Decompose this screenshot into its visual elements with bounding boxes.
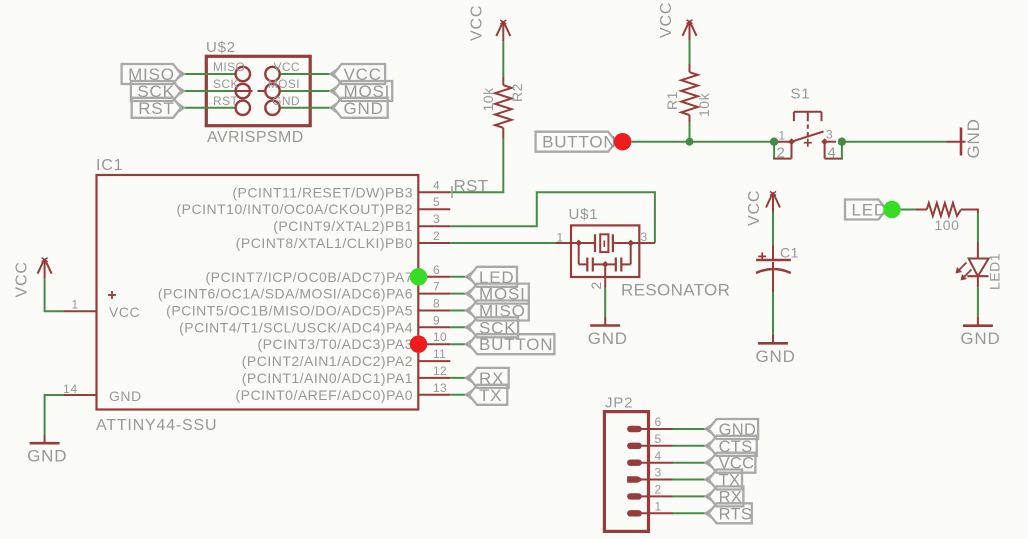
- wire LED1 to ground: [977, 276, 979, 287]
- svg-text:JP2: JP2: [605, 395, 633, 412]
- connector JP2 box: [604, 412, 648, 532]
- svg-text:3: 3: [655, 466, 662, 480]
- svg-text:VCC: VCC: [746, 190, 763, 226]
- JP2 pin 2 stub: [640, 495, 673, 497]
- pin pad U$2 GND: [265, 101, 279, 115]
- wire pin to flag SCK: [450, 326, 469, 328]
- flag MOSI (right of U$2): [334, 81, 393, 101]
- JP2 pin 4 pad: [627, 460, 642, 466]
- plus mark at IC VCC: [108, 294, 116, 296]
- svg-text:2: 2: [777, 145, 786, 162]
- junction at S1 pin 3: [838, 138, 846, 146]
- junction at S1 pin 1: [770, 138, 778, 146]
- JP2 pin 5 stub: [640, 445, 673, 447]
- svg-text:2: 2: [433, 229, 440, 243]
- svg-text:TX: TX: [479, 386, 502, 405]
- flag SCK (left of U$2): [131, 81, 181, 101]
- resistor R3 100 (horizontal): [916, 209, 927, 211]
- svg-text:VCC: VCC: [469, 5, 486, 41]
- ground GND (under resonator): [590, 324, 620, 327]
- pin line U$2 MOSI: [258, 90, 266, 92]
- svg-text:1: 1: [779, 129, 786, 143]
- svg-text:1: 1: [557, 231, 564, 245]
- JP2 pin 2 pad: [627, 493, 642, 499]
- flag SCK (IC right): [469, 317, 518, 337]
- svg-text:GND: GND: [344, 99, 384, 118]
- svg-text:4: 4: [828, 145, 837, 162]
- svg-text:1: 1: [72, 298, 79, 312]
- junction under R1: [686, 138, 694, 146]
- flag RTS (JP2): [709, 503, 752, 523]
- flag MOSI (IC right): [469, 284, 529, 304]
- svg-text:GND: GND: [27, 447, 67, 466]
- switch S1 actuator: [794, 111, 822, 113]
- wire S1 to ground (right): [842, 141, 946, 143]
- wire IC pin 2 XTAL1 to resonator pin 1: [450, 242, 555, 244]
- svg-text:(PCINT4/T1/SCL/USCK/ADC4)PA4: (PCINT4/T1/SCL/USCK/ADC4)PA4: [179, 319, 413, 335]
- wire VCC to pin 1: [45, 279, 64, 312]
- svg-text:RST: RST: [213, 94, 238, 108]
- pin pad U$2 SCK: [236, 84, 250, 98]
- flag LED (IC right): [469, 267, 517, 287]
- JP2 pin 3 stub: [640, 479, 673, 481]
- resistor R2 10k: [502, 77, 504, 85]
- wire JP2 pin 6 to flag GND: [673, 428, 709, 430]
- power VCC (above C1): [766, 193, 773, 208]
- connector U$2 AVRISPSMD box: [206, 56, 310, 125]
- svg-text:VCC: VCC: [109, 304, 140, 320]
- flag GND (JP2): [709, 419, 759, 439]
- pin 2 PB0 stub: [418, 242, 450, 244]
- svg-text:BUTTON: BUTTON: [479, 335, 553, 354]
- wire net GND (right out of U$2): [280, 107, 334, 109]
- flag TX (JP2): [709, 470, 742, 490]
- svg-text:LED1: LED1: [987, 253, 1003, 290]
- svg-text:(PCINT6/OC1A/SDA/MOSI/ADC6)PA6: (PCINT6/OC1A/SDA/MOSI/ADC6)PA6: [158, 286, 413, 302]
- svg-text:S1: S1: [791, 86, 811, 103]
- svg-text:GND: GND: [964, 118, 983, 158]
- resonator pin 1: [555, 242, 578, 244]
- wire resistor to LED1: [977, 209, 979, 214]
- wire pin to flag BUTTON: [450, 343, 469, 345]
- svg-text:AVRISPSMD: AVRISPSMD: [207, 129, 304, 146]
- wire IC pin 3 XTAL2 to resonator pin 3 (over the top): [450, 192, 655, 243]
- flag MISO (left of U$2): [122, 64, 181, 84]
- pin 4 PB3 stub: [418, 191, 450, 193]
- wire R1 to button net: [689, 122, 691, 142]
- svg-text:7: 7: [433, 280, 440, 294]
- svg-text:BUTTON: BUTTON: [542, 133, 616, 152]
- flag RX (JP2): [709, 486, 744, 506]
- wire pin to flag MISO: [450, 310, 469, 312]
- net highlight dot (red) at BUTTON flag: [614, 133, 632, 151]
- pin pad U$2 VCC: [265, 67, 279, 81]
- pin 9 PA4 stub: [418, 326, 450, 328]
- svg-text:8: 8: [433, 297, 440, 311]
- wire JP2 pin 4 to flag VCC: [673, 462, 709, 464]
- svg-text:GND: GND: [756, 347, 796, 366]
- svg-text:(PCINT9/XTAL2)PB1: (PCINT9/XTAL2)PB1: [273, 218, 413, 234]
- pin 10 PA3 stub: [418, 343, 450, 345]
- flag RST (left of U$2): [132, 98, 181, 118]
- wire LED flag to R3: [901, 209, 916, 211]
- JP2 pin 1 stub: [640, 512, 673, 514]
- capacitor C1 (polarized): [772, 245, 774, 260]
- switch S1 pin 2 loop: [773, 142, 775, 159]
- svg-text:10k: 10k: [480, 87, 496, 112]
- flag GND (right of U$2): [334, 98, 388, 118]
- svg-text:GND: GND: [960, 329, 1000, 348]
- wire JP2 pin 1 to flag RTS: [673, 512, 709, 514]
- wire pin to flag MOSI: [450, 293, 469, 295]
- svg-text:VCC: VCC: [273, 60, 300, 74]
- pin 1 VCC stub: [63, 310, 96, 312]
- pin 8 PA5 stub: [418, 310, 450, 312]
- flag BUTTON (IC right): [469, 334, 554, 354]
- svg-text:5: 5: [655, 432, 662, 446]
- svg-text:(PCINT11/RESET/DW)PB3: (PCINT11/RESET/DW)PB3: [232, 184, 413, 200]
- wire JP2 pin 5 to flag CTS: [673, 445, 709, 447]
- ground GND (left): [44, 435, 46, 443]
- svg-text:GND: GND: [109, 388, 142, 404]
- wire pin to flag LED: [450, 276, 469, 278]
- svg-text:6: 6: [655, 415, 662, 429]
- wire C1 to ground: [772, 262, 774, 292]
- ground GND (under LED1): [963, 324, 993, 327]
- resonator pin 2 to ground: [604, 264, 606, 287]
- wire pin 14 to GND: [45, 395, 64, 435]
- svg-text:R2: R2: [509, 83, 525, 102]
- flag CTS (JP2): [709, 436, 757, 456]
- flag VCC (JP2): [709, 453, 756, 473]
- svg-text:2: 2: [655, 483, 662, 497]
- net label RST: [451, 186, 453, 198]
- svg-text:(PCINT7/ICP/OC0B/ADC7)PA7: (PCINT7/ICP/OC0B/ADC7)PA7: [205, 269, 413, 285]
- svg-text:10k: 10k: [696, 92, 712, 117]
- flag RX (IC right): [469, 368, 509, 388]
- wire JP2 pin 3 to flag TX: [673, 479, 709, 481]
- JP2 pin 3 pad: [627, 476, 644, 482]
- resonator U$1 body: [571, 225, 639, 277]
- pin pad U$2 RST: [236, 101, 250, 115]
- svg-text:1: 1: [655, 500, 662, 514]
- net highlight dot (red) on pin 10 BUTTON: [410, 335, 428, 353]
- svg-text:RESONATOR: RESONATOR: [621, 281, 730, 300]
- svg-text:100: 100: [935, 217, 960, 233]
- JP2 pin 6 stub: [640, 428, 673, 430]
- svg-text:GND: GND: [588, 329, 628, 348]
- switch S1 pin 4 loop: [824, 142, 826, 158]
- svg-text:(PCINT2/AIN1/ADC2)PA2: (PCINT2/AIN1/ADC2)PA2: [242, 353, 413, 369]
- flag MISO (IC right): [469, 301, 529, 321]
- pin pad U$2 MISO: [236, 67, 250, 81]
- svg-text:MOSI: MOSI: [268, 77, 300, 91]
- svg-text:MISO: MISO: [213, 60, 245, 74]
- svg-text:SCK: SCK: [213, 77, 239, 91]
- plus mark at C1: [758, 255, 766, 257]
- wire R2 to IC pin 4 (RST net): [450, 139, 503, 192]
- resistor R1 10k: [689, 64, 691, 72]
- wire net MISO (left into U$2): [181, 73, 236, 75]
- svg-text:14: 14: [63, 382, 78, 396]
- svg-text:3: 3: [641, 230, 648, 244]
- flag LED (net source): [845, 200, 887, 220]
- wire VCC to R2: [502, 41, 504, 77]
- JP2 pin 4 stub: [640, 462, 673, 464]
- wire net VCC (right out of U$2): [280, 73, 334, 75]
- pin pad U$2 MOSI: [265, 84, 279, 98]
- svg-text:U$1: U$1: [569, 206, 599, 223]
- svg-text:(PCINT5/OC1B/MISO/DO/ADC5)PA5: (PCINT5/OC1B/MISO/DO/ADC5)PA5: [166, 303, 413, 319]
- svg-text:U$2: U$2: [206, 39, 236, 56]
- wire JP2 pin 2 to flag RX: [673, 495, 709, 497]
- ground GND (right, rotated): [946, 141, 965, 143]
- wire pin to flag TX: [450, 394, 469, 396]
- svg-text:(PCINT1/AIN0/ADC1)PA1: (PCINT1/AIN0/ADC1)PA1: [242, 370, 413, 386]
- switch S1 pin 3: [825, 141, 836, 143]
- LED LED1 diode symbol: [969, 259, 989, 277]
- switch S1 lever: [792, 132, 824, 142]
- svg-text:4: 4: [433, 178, 440, 192]
- svg-text:2: 2: [588, 281, 604, 290]
- svg-text:(PCINT10/INT0/OC0A/CKOUT)PB2: (PCINT10/INT0/OC0A/CKOUT)PB2: [177, 201, 414, 217]
- net highlight dot (green) on pin 6 LED: [410, 268, 428, 286]
- svg-text:(PCINT3/T0/ADC3)PA3: (PCINT3/T0/ADC3)PA3: [258, 336, 414, 352]
- svg-text:VCC: VCC: [658, 2, 675, 38]
- svg-text:C1: C1: [780, 245, 799, 261]
- resonator pin 3: [631, 242, 655, 244]
- wire BUTTON to S1: [631, 141, 774, 143]
- switch S1 pin 1: [775, 141, 791, 143]
- pin 5 PB2 stub: [418, 208, 450, 210]
- wire VCC to R1: [689, 41, 691, 64]
- wire pin to flag RX: [450, 377, 469, 379]
- flag TX (IC right): [469, 385, 507, 405]
- svg-text:6: 6: [433, 263, 440, 277]
- power VCC (above R2): [496, 21, 503, 36]
- svg-text:GND: GND: [272, 94, 300, 108]
- pin 11 PA2 stub: [418, 360, 450, 362]
- wire net RST (left into U$2): [181, 107, 236, 109]
- svg-text:3: 3: [433, 212, 440, 226]
- flag VCC (right of U$2): [334, 64, 386, 84]
- IC U1 ATTINY44-SSU body IC1: [97, 175, 419, 410]
- switch S1 cross mark: [804, 142, 812, 144]
- LED1 light arrows: [958, 263, 967, 272]
- svg-text:10: 10: [433, 330, 447, 344]
- svg-text:4: 4: [655, 449, 662, 463]
- pin line U$2 SCK: [236, 90, 253, 92]
- internal capacitors of U$1: [578, 243, 580, 264]
- svg-text:VCC: VCC: [14, 261, 31, 297]
- JP2 pin 6 pad: [627, 426, 642, 432]
- net highlight dot (green) at LED flag: [883, 201, 901, 219]
- power VCC (above R1): [683, 21, 690, 36]
- flag BUTTON (net source): [536, 132, 617, 152]
- wire VCC to C1: [772, 213, 774, 246]
- svg-text:12: 12: [433, 364, 447, 378]
- svg-text:ATTINY44-SSU: ATTINY44-SSU: [96, 417, 217, 434]
- svg-text:(PCINT8/XTAL1/CLKI)PB0: (PCINT8/XTAL1/CLKI)PB0: [236, 235, 413, 251]
- pin 7 PA6 stub: [418, 293, 450, 295]
- wire net MOSI (right out of U$2): [280, 90, 334, 92]
- JP2 pin 1 pad: [627, 510, 642, 516]
- svg-text:RST: RST: [138, 99, 174, 118]
- ground GND (under C1): [758, 342, 788, 345]
- svg-text:(PCINT0/AREF/ADC0)PA0: (PCINT0/AREF/ADC0)PA0: [236, 387, 414, 403]
- wire net SCK (left into U$2): [181, 90, 236, 92]
- svg-text:IC1: IC1: [96, 157, 123, 174]
- JP2 pin 5 pad: [627, 443, 642, 449]
- svg-text:RST: RST: [454, 177, 489, 196]
- svg-text:9: 9: [433, 313, 440, 327]
- svg-text:5: 5: [433, 195, 440, 209]
- svg-text:3: 3: [826, 128, 833, 142]
- svg-text:R1: R1: [664, 91, 680, 110]
- power VCC (left): [38, 259, 45, 274]
- svg-text:13: 13: [433, 381, 447, 395]
- svg-text:RTS: RTS: [719, 505, 753, 523]
- pin 12 PA1 stub: [418, 377, 450, 379]
- pin 6 PA7 stub: [418, 276, 450, 278]
- svg-text:LED: LED: [852, 201, 887, 220]
- pin 13 PA0 stub: [418, 394, 450, 396]
- pin 14 GND stub: [63, 394, 96, 396]
- crystal element inside U$1: [579, 242, 595, 244]
- svg-text:11: 11: [433, 347, 446, 361]
- pin 3 PB1 stub: [418, 225, 450, 227]
